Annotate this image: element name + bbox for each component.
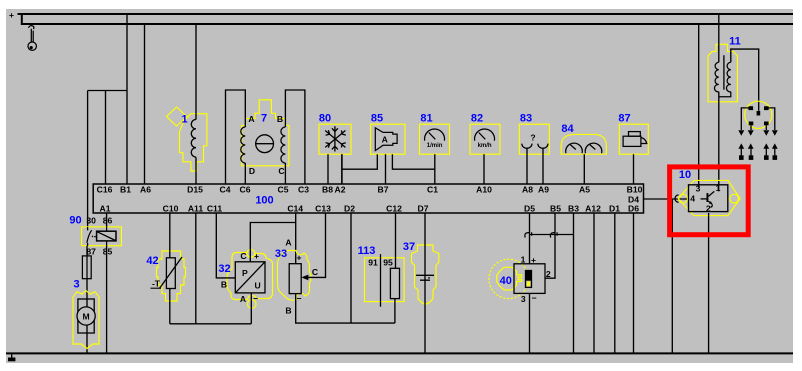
svg-text:A11: A11 [188,204,204,214]
wire D1 down [614,213,616,353]
svg-text:A6: A6 [140,185,151,195]
svg-text:113: 113 [358,245,376,257]
svg-text:95: 95 [383,258,393,268]
svg-text:+: + [254,251,259,261]
svg-text:P: P [242,268,248,278]
wire B8 from box 80 [327,154,329,184]
svg-text:30: 30 [86,216,96,226]
coil 7 pin labels [248,114,284,176]
wire sensor ground net horizontal [170,323,252,325]
svg-text:D7: D7 [418,204,429,214]
svg-text:−: − [531,293,536,303]
svg-text:B7: B7 [378,185,389,195]
svg-text:33: 33 [275,248,287,260]
gauge icon 1/min [425,129,445,141]
injector 1 coil [191,119,196,157]
ignition coil 11 secondary winding [726,62,730,92]
svg-text:−: − [253,294,258,304]
coil 7 housing outline [242,100,289,166]
relay pin labels [86,216,112,257]
highlight red box around component 10 [670,167,749,235]
key ring outline [489,259,528,298]
box icon [623,132,647,147]
snowflake icon [325,126,346,151]
MAP sensor 32 housing outline [227,253,273,300]
wires from buzzer 85: left pin to A2 line [342,154,378,184]
wire B5 to switch pin 2 [545,213,555,278]
thermistor 42 [166,258,175,289]
coil 7 core symbol [256,135,274,153]
svg-text:C11: C11 [207,204,223,214]
test pin 91 line [380,254,382,307]
svg-text:D1: D1 [609,204,620,214]
relay coil vertical stubs [106,227,108,246]
motor M symbol [78,299,94,333]
svg-text:km/h: km/h [478,143,492,149]
test clamp probe on rail 2 [28,26,36,51]
svg-text:1: 1 [521,254,526,264]
wire D7 down through knock sensor to ground rail [424,213,426,353]
wire 33 B down and right to D2 net [296,294,395,324]
relay coil [97,231,116,241]
svg-text:A: A [285,238,291,248]
coil 11 secondary bottom junction [719,92,731,97]
svg-text:2: 2 [706,203,711,213]
wire D2 down [350,213,352,323]
svg-text:3: 3 [521,294,526,304]
wire A1: ECU to relay 86 [106,213,108,227]
connector arc on pin4 wire [675,195,679,202]
unknown component 83 box [519,124,549,154]
wire C3 staple to C5 [285,90,305,184]
ECU bottom row pin labels [100,195,640,214]
ignition switch 40 box fill [514,264,545,294]
svg-text:90: 90 [69,215,81,227]
spark plugs [741,149,775,157]
wire relay 87 down to fuse and pump [86,246,88,354]
wire rail2 to hall sender pin 3 [698,24,700,185]
socket hooks [522,144,532,149]
ignition coil 11 core [723,55,725,89]
svg-text:C: C [278,166,284,176]
svg-text:C10: C10 [163,204,179,214]
svg-text:+: + [296,253,301,263]
wire relay 85 to ground rail [106,246,108,354]
relay switch [87,227,92,246]
svg-text:1: 1 [181,114,187,126]
instrument cluster 84 dome [561,134,606,154]
svg-text:83: 83 [520,112,532,124]
svg-text:32: 32 [218,263,230,275]
svg-text:C: C [240,251,246,261]
distributor cap [745,101,772,128]
svg-text:D2: D2 [344,204,355,214]
wire B10 [633,154,635,184]
svg-text:D15: D15 [187,185,203,195]
wire C12 down to resistor 95 [395,213,397,268]
resistor 95 [390,268,399,298]
svg-text:A2: A2 [335,185,346,195]
wire hall pin 2 to ground rail [708,213,710,353]
svg-text:87: 87 [86,246,96,256]
wire D6 down [633,213,635,353]
svg-text:D: D [249,166,255,176]
svg-text:C14: C14 [287,204,303,214]
svg-text:D6: D6 [628,204,639,214]
svg-text:80: 80 [319,112,331,124]
horn icon [375,128,397,151]
svg-text:B8: B8 [322,185,333,195]
svg-text:40: 40 [500,275,512,287]
svg-text:C12: C12 [386,204,402,214]
thermistor 42 housing outline [157,251,186,301]
svg-text:3: 3 [73,279,79,291]
wire MAP C pin to C14 [250,223,295,262]
svg-text:D4: D4 [628,195,639,205]
wire A10 [483,154,485,184]
svg-text:C6: C6 [240,185,251,195]
svg-text:37: 37 [403,241,415,253]
svg-text:B: B [221,279,227,289]
wire A2 from box 80 [341,154,343,184]
coil 7 primary winding on C6 line [241,127,246,163]
branch of pin4 wire to ground rail [671,199,673,353]
gauge icon km/h [475,129,495,141]
wire C1 [434,154,436,184]
wire resistor 95 bottom to net [394,299,396,324]
svg-text:A5: A5 [579,185,590,195]
svg-text:−: − [296,294,301,304]
MAP sensor 32 body [235,262,265,293]
svg-text:+: + [531,255,536,265]
svg-text:C5: C5 [278,185,289,195]
pump housing outline [73,291,99,349]
wire C14 down to throttle pot [295,213,297,264]
key symbol [526,271,532,288]
svg-text:B5: B5 [550,204,561,214]
wire D5 to ignition switch [529,213,531,264]
buzzer 85 box [371,124,406,154]
ECU 100 box [93,184,643,213]
ignition coil 11 housing outline [708,44,737,102]
svg-text:C4: C4 [220,185,231,195]
svg-text:C16: C16 [97,185,113,195]
wire D15: rail2 through injector to ECU D15 [195,24,197,184]
svg-text:7: 7 [261,113,267,125]
svg-text:C: C [312,267,318,277]
fuse [82,256,91,279]
svg-text:B3: B3 [568,204,579,214]
svg-text:B: B [277,114,283,124]
svg-text:86: 86 [103,216,113,226]
svg-text:85: 85 [371,112,383,124]
coil 7 secondary winding on C5 line [281,127,286,163]
distributor output wires with arrows [741,106,775,130]
A/C switch 80 box [319,124,351,154]
pot 33 housing outline [278,251,312,301]
wire B7 [385,154,387,184]
hall sender pin stubs [699,185,719,192]
wire C11 to MAP sensor B [216,213,235,278]
wire 42 bottom to sensor ground net [169,289,171,324]
svg-text:81: 81 [420,112,432,124]
ignition switch 40 box [514,264,545,294]
svg-text:82: 82 [471,112,483,124]
svg-text:A10: A10 [476,185,492,195]
ECU top row pin labels [97,185,643,195]
crossover link D5-B5-B3 [530,234,574,236]
relay unit 87 box [619,124,648,154]
svg-text:42: 42 [146,255,158,267]
svg-text:4: 4 [690,194,695,204]
svg-text:A: A [248,114,254,124]
svg-text:B: B [285,306,291,316]
svg-text:A: A [382,135,388,145]
ground rail (bottom) [6,352,793,354]
speedometer 82 box [470,124,500,154]
svg-text:84: 84 [561,123,574,135]
wire A12 down [593,213,595,353]
svg-text:+: + [9,10,14,20]
tachometer 81 box [420,124,450,154]
svg-text:A8: A8 [522,185,533,195]
hall sender 10 housing hexagon [678,180,740,215]
svg-text:A12: A12 [585,204,601,214]
wire A11 down [195,213,197,324]
injector 1 housing outline [167,107,188,126]
svg-text:A9: A9 [538,185,549,195]
svg-text:11: 11 [729,36,741,48]
svg-text:100: 100 [255,195,273,207]
ignition coil 11 primary winding [714,62,718,92]
wire D4 to hall sender pin 4 [644,198,689,200]
svg-text:A1: A1 [100,204,111,214]
wire A9 [542,148,544,184]
svg-text:85: 85 [103,246,113,256]
relay 90 [82,227,122,246]
svg-text:3: 3 [696,184,701,194]
svg-text:B10: B10 [627,185,643,195]
ground symbol [11,353,13,357]
wiper arrow from C13 [305,213,326,277]
wire A6: rail2 to ECU A6 [144,24,146,184]
svg-text:C3: C3 [298,185,309,195]
svg-text:B1: B1 [120,185,131,195]
hall sender 10 body [689,185,728,212]
wire: +12V rail 1 (top) [18,13,794,15]
coil 11 secondary top to distributor [731,49,759,111]
cluster gauge icons [566,143,602,153]
wire branch to C16 and relay pin 30 [88,91,127,227]
wire A8 [526,148,528,184]
knock sensor housing outline [412,245,439,304]
svg-text:C13: C13 [315,204,331,214]
wire A5 [583,154,585,184]
wire switch pin3 to ground rail [529,293,531,353]
wire MAP A pin to sensor ground [250,293,252,324]
svg-text:?: ? [530,133,535,143]
svg-text:1/min: 1/min [427,143,443,149]
wire B3 down [573,213,575,353]
svg-text:-T: -T [152,279,161,289]
svg-text:C1: C1 [427,185,438,195]
svg-text:A: A [240,294,246,304]
svg-text:U: U [255,281,261,291]
knock sensor symbol [416,275,434,280]
connector arcs [525,232,532,237]
wire: +12V rail 2 (branch) [22,14,793,24]
svg-text:M: M [83,311,90,321]
svg-text:2: 2 [546,269,551,279]
svg-text:91: 91 [368,258,378,268]
transistor symbol [701,198,707,200]
svg-text:10: 10 [679,169,691,181]
wire from 85 right pin to C1 line [392,154,434,169]
wire C10: ECU to thermistor 42 [169,213,171,258]
svg-text:87: 87 [618,112,630,124]
svg-text:D5: D5 [524,204,535,214]
svg-text:1: 1 [716,183,721,193]
wire C4 staple to C6 [226,90,246,184]
wire B1: rail1 to ECU B1 [126,14,128,184]
wire rail1 through ignition coil 11 to hall pin 1 [718,14,720,185]
